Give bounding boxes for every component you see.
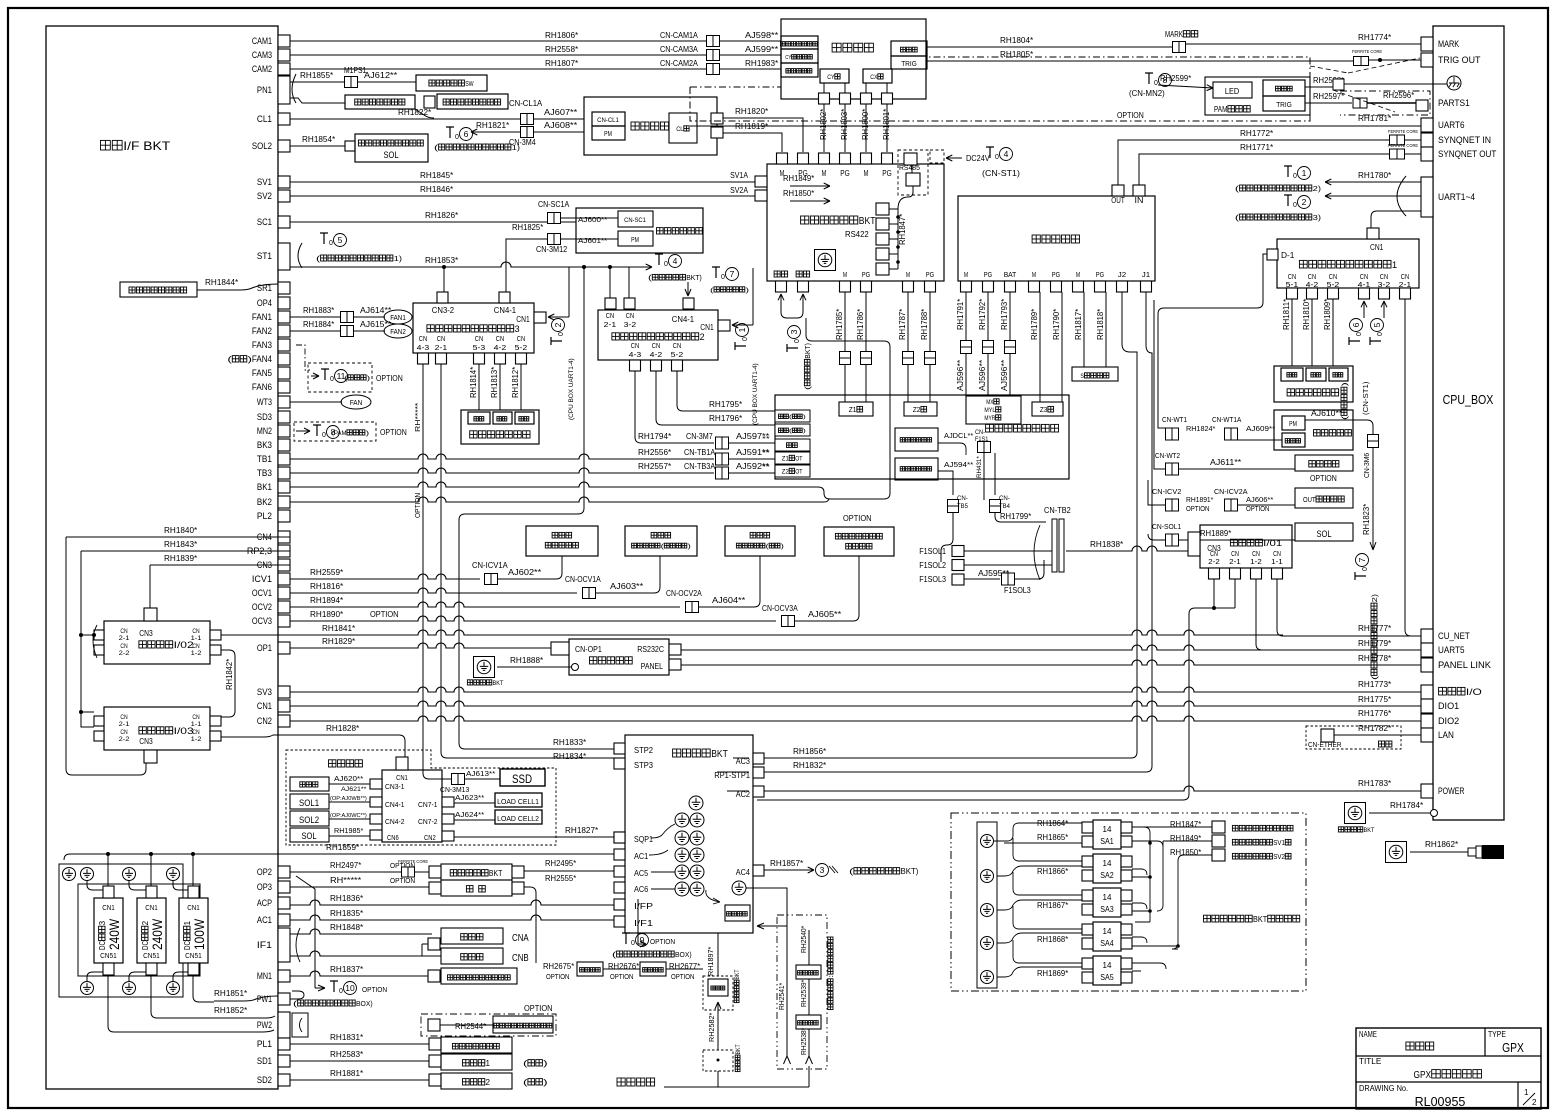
DC24V dashed sq — [930, 150, 944, 163]
svg-text:AJ612**: AJ612** — [364, 70, 398, 80]
T0 4 arrow ref — [629, 266, 652, 268]
svg-text:RH1776*: RH1776* — [1358, 708, 1392, 718]
svg-text:TRIG: TRIG — [901, 61, 917, 68]
port CN2 — [278, 715, 290, 727]
svg-text:OP2: OP2 — [257, 867, 272, 877]
svg-text:1-1: 1-1 — [1271, 559, 1283, 566]
svg-text:): ) — [366, 430, 370, 437]
port SD3 — [278, 411, 290, 423]
svg-text:CN: CN — [437, 334, 445, 343]
svg-text:CAM3: CAM3 — [252, 50, 272, 60]
svg-text:CN7-1: CN7-1 — [418, 802, 438, 809]
svg-text:CN3-1: CN3-1 — [385, 784, 405, 791]
svg-text:0: 0 — [330, 376, 334, 383]
port CAM2 — [278, 63, 290, 75]
svg-text:2: 2 — [486, 1078, 491, 1087]
PM box cleaner — [592, 126, 625, 140]
svg-text:FERRITE CORE: FERRITE CORE — [398, 859, 428, 864]
svg-text:RH1811*: RH1811* — [1282, 299, 1291, 330]
svg-text:TRIG: TRIG — [1276, 102, 1292, 109]
port PW1 — [278, 993, 290, 1005]
wire WT3 FAN — [290, 401, 342, 403]
cleaner box — [584, 97, 717, 155]
DC PSU outer frame — [59, 864, 183, 997]
wire CN2 DIO2 RH1776 — [290, 716, 1421, 721]
RH2582 wire — [717, 1010, 719, 1050]
port OP4 — [278, 297, 290, 309]
CPU port サーボI/O — [1421, 685, 1433, 699]
svg-text:3-2: 3-2 — [624, 320, 637, 329]
wire RH1853 vertical to STP2 — [459, 267, 614, 749]
svg-text:RH2538*: RH2538* — [801, 1027, 808, 1055]
svg-text:1-1: 1-1 — [191, 721, 202, 728]
svg-text:CN51: CN51 — [185, 951, 202, 960]
svg-text:AJ608**: AJ608** — [544, 120, 578, 130]
SC3 CN1 arrow — [548, 316, 569, 318]
SC3 right stub CN1 — [534, 312, 546, 323]
svg-text:CN-TB2: CN-TB2 — [1044, 506, 1071, 515]
svg-text:RH1785*: RH1785* — [835, 309, 844, 340]
svg-text:M: M — [843, 270, 847, 279]
temp control wire right — [524, 887, 536, 963]
svg-text:ACP: ACP — [257, 898, 272, 908]
svg-text:RH1838*: RH1838* — [1090, 539, 1124, 549]
title block — [1356, 1028, 1541, 1109]
maintenance key box — [437, 94, 508, 109]
svg-text:Z2: Z2 — [782, 469, 790, 476]
SC2 right stub CN1 — [718, 320, 730, 331]
Z2 axis box — [904, 402, 937, 416]
cleaner squeegee SOL box — [355, 134, 428, 162]
svg-text:BKT): BKT) — [686, 275, 702, 282]
svg-text:RH1795*: RH1795* — [709, 399, 743, 409]
svg-text:FAN3: FAN3 — [252, 340, 272, 350]
svg-text:RH1803*: RH1803* — [840, 109, 849, 140]
svg-text:RH1788*: RH1788* — [920, 309, 929, 340]
svg-text:RH1865*: RH1865* — [1037, 833, 1068, 842]
dashed lines to TRIG OUT — [1310, 66, 1348, 73]
svg-text:AC2: AC2 — [736, 789, 750, 799]
LED box — [1213, 82, 1252, 98]
port WT3 — [278, 396, 290, 408]
PM box detergent — [1282, 416, 1305, 430]
port MN1 — [278, 970, 290, 982]
svg-text:ICV1: ICV1 — [252, 574, 272, 584]
svg-text:CN-: CN- — [957, 495, 968, 502]
remote IO1 CN3 stub — [1188, 532, 1200, 556]
booster transformer box — [796, 965, 821, 979]
svg-text:F1SOL2: F1SOL2 — [919, 561, 946, 570]
SC3 CN4-3 wire down — [422, 364, 424, 773]
svg-text:TB5: TB5 — [957, 503, 968, 510]
svg-text:RH1813*: RH1813* — [490, 367, 499, 398]
svg-text:RH1777*: RH1777* — [1358, 623, 1392, 633]
svg-text:PW2: PW2 — [257, 1020, 272, 1030]
svg-text:RH1841*: RH1841* — [322, 623, 356, 633]
SC2 CN1 arrow — [732, 324, 753, 326]
svg-text:CNA: CNA — [512, 933, 529, 944]
svg-text:RH2559*: RH2559* — [310, 567, 344, 577]
svg-text:1-1: 1-1 — [191, 635, 202, 642]
svg-text:RH1778*: RH1778* — [1358, 653, 1392, 663]
SOL2 box — [290, 811, 329, 826]
in-conveyor box — [1274, 366, 1353, 402]
wire BK2 — [290, 497, 824, 502]
svg-text:CN: CN — [475, 334, 483, 343]
svg-text:TYPE: TYPE — [1488, 1030, 1506, 1039]
board height check key box — [441, 968, 517, 984]
svg-text:LOAD CELL1: LOAD CELL1 — [497, 797, 539, 806]
svg-text:RH1812*: RH1812* — [511, 367, 520, 398]
svg-text:RH1804*: RH1804* — [1000, 35, 1034, 45]
svg-text:OPTION: OPTION — [413, 493, 422, 518]
svg-text:BKT: BKT — [1253, 914, 1267, 924]
svg-text:SA3: SA3 — [1100, 905, 1114, 914]
svg-text:AJ621**: AJ621** — [341, 786, 367, 793]
svg-text:RH1846*: RH1846* — [420, 184, 454, 194]
svg-text:RS422: RS422 — [845, 229, 869, 239]
S axis motor box — [1072, 367, 1118, 381]
IF1 stub — [614, 916, 625, 927]
svg-text:UART6: UART6 — [1438, 120, 1465, 131]
port SD2 — [278, 1074, 290, 1086]
svg-text:PN1: PN1 — [257, 85, 272, 95]
svg-text:0: 0 — [1362, 567, 1369, 571]
svg-text::: : — [828, 974, 835, 978]
svg-text:RH1826*: RH1826* — [425, 210, 459, 220]
svg-text:RH1867*: RH1867* — [1037, 901, 1068, 910]
CPU port SYNQNET IN — [1421, 133, 1433, 147]
svg-text:OPTION: OPTION — [362, 985, 387, 994]
svg-text:SV2: SV2 — [1273, 854, 1285, 861]
sensor box detergent — [1282, 433, 1305, 447]
svg-text:CN: CN — [192, 714, 200, 721]
RH1857 arrow — [764, 869, 800, 871]
T0 7 ref at SC2 — [712, 267, 720, 278]
svg-text:DIO2: DIO2 — [1438, 716, 1459, 727]
svg-text:PG: PG — [882, 168, 892, 178]
servo BKT bottom pin 制御 — [796, 271, 802, 277]
svg-text:RH1983*: RH1983* — [745, 58, 779, 68]
AC3 stub — [753, 753, 764, 764]
OUT board arrival box — [1295, 488, 1353, 508]
T0 5 ST1 ref — [320, 233, 328, 244]
svg-text:CN1: CN1 — [1370, 243, 1384, 252]
main table box — [775, 395, 1069, 479]
svg-text:GPX: GPX — [1502, 1040, 1524, 1055]
svg-text:CN1: CN1 — [102, 903, 115, 912]
svg-text:CN: CN — [1210, 551, 1218, 558]
CN-ETHER dashed box — [1306, 726, 1401, 749]
svg-text:0: 0 — [794, 339, 801, 343]
bundle arc CN-TB2 — [1034, 525, 1040, 580]
wire AC1 RH1835 — [290, 915, 614, 920]
svg-text:4-3: 4-3 — [629, 350, 642, 359]
svg-text:RH1888*: RH1888* — [510, 655, 544, 665]
base side sensor box — [895, 428, 938, 451]
svg-text:CN: CN — [419, 334, 427, 343]
svg-text:AJ599**: AJ599** — [745, 44, 779, 54]
svg-text:RH1772*: RH1772* — [1240, 128, 1274, 138]
PSU DC電源2 — [137, 898, 166, 963]
wires to Z3 — [1039, 292, 1041, 402]
CN-CL1 box — [592, 112, 625, 126]
svg-text:CN3-2: CN3-2 — [432, 306, 455, 315]
screen frame box — [576, 208, 703, 253]
svg-text:): ) — [803, 415, 806, 421]
port CN1 — [278, 700, 290, 712]
svg-text:CN-CL1: CN-CL1 — [597, 117, 619, 124]
svg-text:RH2557*: RH2557* — [638, 461, 672, 471]
svg-text:CN-: CN- — [999, 495, 1010, 502]
SOL box right — [1295, 523, 1353, 541]
svg-text:AJ596**: AJ596** — [978, 360, 987, 391]
svg-text:BKT): BKT) — [805, 343, 812, 359]
svg-text:RH*****: RH***** — [330, 876, 361, 885]
OP2 diagonal option wire — [296, 876, 325, 991]
svg-text:TB1: TB1 — [257, 454, 272, 464]
svg-text:CN6: CN6 — [387, 835, 399, 842]
svg-text:CN2: CN2 — [424, 835, 436, 842]
STP2 stub — [614, 743, 625, 754]
camera axis box — [781, 19, 926, 99]
svg-text:14: 14 — [1103, 961, 1112, 970]
svg-text:RH1807*: RH1807* — [545, 58, 579, 68]
svg-text:1: 1 — [1524, 1088, 1529, 1097]
svg-text:CN-ICV2: CN-ICV2 — [1152, 487, 1181, 496]
svg-text:): ) — [781, 544, 784, 550]
CPU port CU_NET — [1421, 629, 1433, 643]
svg-text:CN: CN — [517, 334, 525, 343]
SA3 unit — [1093, 888, 1121, 917]
svg-text:SC1: SC1 — [257, 217, 272, 227]
CPU port UART6 — [1421, 118, 1433, 132]
svg-text:2): 2) — [1313, 184, 1322, 193]
svg-text:PM: PM — [1289, 421, 1297, 428]
svg-text:RH1847*: RH1847* — [1170, 820, 1201, 829]
port SV3 — [278, 686, 290, 698]
IF1 bundle arc — [296, 928, 300, 962]
svg-text:RH1791*: RH1791* — [956, 299, 965, 330]
AC5 stub — [614, 866, 625, 877]
svg-text:CN4-2: CN4-2 — [385, 819, 405, 826]
wire RH1840 CN4 — [66, 536, 290, 538]
svg-text:RH2555*: RH2555* — [545, 874, 576, 883]
svg-text:WT3: WT3 — [257, 397, 272, 407]
svg-text:OUT: OUT — [1303, 495, 1316, 504]
port OP2 — [278, 866, 290, 878]
CPU port UART5 — [1421, 643, 1433, 657]
svg-text:M: M — [964, 270, 968, 279]
svg-text:PL2: PL2 — [257, 511, 272, 521]
svg-text:2-1: 2-1 — [435, 343, 448, 352]
SA5 unit — [1093, 956, 1121, 985]
svg-text:RH1789*: RH1789* — [1030, 309, 1039, 340]
remote IO2 bundle arc — [93, 625, 97, 658]
SC3 CN2-1 wire down to STP3 — [441, 364, 614, 758]
svg-text:3: 3 — [789, 329, 799, 334]
svg-text:0: 0 — [995, 154, 999, 161]
port PL2 — [278, 510, 290, 522]
port BK1 — [278, 481, 290, 493]
svg-text:AJ615**: AJ615** — [360, 320, 391, 329]
svg-text:240W: 240W — [149, 918, 165, 950]
svg-text:(: ( — [789, 415, 792, 421]
svg-text:RH1817*: RH1817* — [1074, 309, 1083, 340]
port CN4 — [278, 531, 290, 543]
svg-text:PANEL LINK: PANEL LINK — [1438, 660, 1492, 671]
svg-text:M: M — [1032, 270, 1036, 279]
servo BKT top pin PG — [882, 153, 893, 164]
svg-text:SQP1: SQP1 — [634, 834, 653, 844]
signal tower pole option box — [421, 1014, 556, 1036]
svg-text:UART1~4: UART1~4 — [1438, 192, 1475, 203]
CPU port DIO2 — [1421, 714, 1433, 728]
external servo BKT box — [767, 164, 944, 281]
svg-text:BKT: BKT — [489, 869, 502, 878]
svg-text:CN51: CN51 — [100, 951, 117, 960]
detail right wires — [1132, 827, 1150, 922]
svg-text:7: 7 — [730, 269, 735, 279]
svg-text:Z1: Z1 — [849, 407, 857, 414]
svg-text:TRIG OUT: TRIG OUT — [1438, 55, 1481, 66]
svg-text:OT: OT — [795, 469, 802, 476]
port RP2,3 — [278, 545, 290, 557]
svg-text:4: 4 — [1004, 149, 1009, 159]
AC2 stub — [753, 786, 764, 797]
port CL1 — [278, 113, 290, 125]
servo BKT ground — [815, 250, 836, 271]
svg-text:CN-ICV1A: CN-ICV1A — [472, 561, 508, 570]
svg-text:0: 0 — [1293, 173, 1297, 180]
wire RH1803* — [844, 83, 846, 152]
port ICV1 — [278, 573, 290, 585]
CPU port LAN — [1421, 728, 1433, 742]
svg-text:RH1848*: RH1848* — [330, 922, 364, 932]
svg-text:1: 1 — [737, 327, 747, 332]
svg-text:RH1856*: RH1856* — [793, 746, 827, 756]
svg-text:PL1: PL1 — [257, 1039, 272, 1049]
svg-text:CN-CAM3A: CN-CAM3A — [660, 44, 698, 54]
svg-text:AJ598**: AJ598** — [745, 30, 779, 40]
svg-text:F1SOL1: F1SOL1 — [919, 547, 946, 556]
svg-text:OT: OT — [795, 456, 802, 463]
svg-text:BKT: BKT — [1364, 827, 1375, 834]
svg-text:CN-SC1: CN-SC1 — [624, 217, 646, 224]
svg-text:SA5: SA5 — [1100, 973, 1114, 982]
port SD1 — [278, 1055, 290, 1067]
wire RH1772 SYNQNET IN — [1118, 140, 1421, 185]
svg-text:F1SOL3: F1SOL3 — [1004, 586, 1031, 595]
svg-text:RH1831*: RH1831* — [330, 1032, 364, 1042]
svg-text:RH1869*: RH1869* — [1037, 969, 1068, 978]
svg-text:5-2: 5-2 — [515, 343, 528, 352]
wire RH1800* — [865, 83, 867, 152]
CY axis box — [820, 69, 849, 83]
svg-text:AJ604**: AJ604** — [712, 595, 746, 605]
svg-text:FAN1: FAN1 — [390, 315, 406, 322]
svg-text:RH1850*: RH1850* — [1170, 848, 1201, 857]
port MN2 — [278, 425, 290, 437]
svg-text:PG: PG — [1052, 270, 1061, 279]
svg-text:CN: CN — [1231, 551, 1239, 558]
svg-text:RH2583*: RH2583* — [330, 1049, 364, 1059]
wire OCV3 RH1890 — [290, 616, 776, 621]
svg-text:**: ** — [762, 436, 770, 443]
port FAN4 — [278, 353, 290, 365]
remote IO1 box — [1200, 525, 1292, 568]
svg-text:RH1859*: RH1859* — [326, 842, 360, 852]
ground to op monitor — [474, 657, 495, 678]
svg-text:Z2: Z2 — [913, 407, 921, 414]
svg-text:2-1: 2-1 — [604, 320, 617, 329]
svg-text:CN-3M4: CN-3M4 — [509, 138, 536, 147]
svg-text:ST1: ST1 — [257, 251, 272, 261]
svg-text:(: ( — [849, 867, 854, 876]
servo BKT bottom pin 動力 — [774, 271, 780, 277]
svg-text:DRAWING No.: DRAWING No. — [1359, 1084, 1408, 1093]
CY axis sensor box — [781, 49, 818, 63]
eject rear sensor relay box — [725, 526, 795, 556]
svg-text:AC1: AC1 — [257, 915, 272, 925]
svg-text:5-3: 5-3 — [473, 343, 486, 352]
svg-text:CN-OCV1A: CN-OCV1A — [565, 575, 601, 584]
svg-text:RH2675*: RH2675* — [543, 962, 574, 971]
CPU port TRIG OUT — [1421, 53, 1433, 67]
wire FAN2 — [290, 330, 385, 332]
svg-text:CN: CN — [631, 341, 639, 350]
wire RH1853 ST1 — [290, 262, 629, 267]
wire CAM2 — [290, 68, 781, 70]
svg-text:AJ605**: AJ605** — [808, 609, 842, 619]
svg-text:CN: CN — [120, 714, 128, 721]
power plug symbol — [1468, 846, 1482, 858]
wire MN1 RH1837 — [290, 971, 428, 976]
PSU DC電源1 — [179, 898, 208, 963]
wire RH1859 AC1 — [70, 853, 614, 855]
svg-text:AJ594**: AJ594** — [944, 460, 973, 469]
svg-text:FAN1: FAN1 — [252, 312, 272, 322]
servo BKT top pin M — [819, 153, 830, 164]
MX MYL MYR box — [966, 396, 1021, 424]
svg-text:RH2599*: RH2599* — [1160, 74, 1191, 83]
svg-text:7: 7 — [1357, 557, 1367, 562]
svg-text:FAN2: FAN2 — [252, 326, 272, 336]
svg-text:(: ( — [789, 429, 792, 435]
svg-text:RH1779*: RH1779* — [1358, 638, 1392, 648]
svg-text:): ) — [803, 429, 806, 435]
svg-text:MARK: MARK — [1438, 39, 1460, 50]
svg-text:FAN4: FAN4 — [252, 354, 272, 364]
wire SD2 safety door2 — [290, 1079, 441, 1081]
RP1-STP1 stub — [753, 767, 764, 778]
svg-text:SYNQNET OUT: SYNQNET OUT — [1438, 149, 1496, 160]
svg-text:RH1855*: RH1855* — [300, 70, 334, 80]
port CN3 — [278, 559, 290, 571]
port BK3 — [278, 439, 290, 451]
port OCV2 — [278, 601, 290, 613]
svg-text:RH1806*: RH1806* — [545, 30, 579, 40]
svg-text:RH2544*: RH2544* — [455, 1022, 486, 1031]
wire SD1 safety door1 — [290, 1060, 441, 1062]
svg-text:RH1818*: RH1818* — [1096, 309, 1105, 340]
wire RH1843 RP2,3 — [81, 550, 290, 552]
svg-text:0: 0 — [742, 337, 749, 341]
svg-text:CN1: CN1 — [145, 903, 158, 912]
svg-text:RH1814*: RH1814* — [469, 367, 478, 398]
svg-text:CN-ICV2A: CN-ICV2A — [1214, 487, 1248, 496]
wire PANEL LINK RH1778 — [681, 660, 1421, 665]
